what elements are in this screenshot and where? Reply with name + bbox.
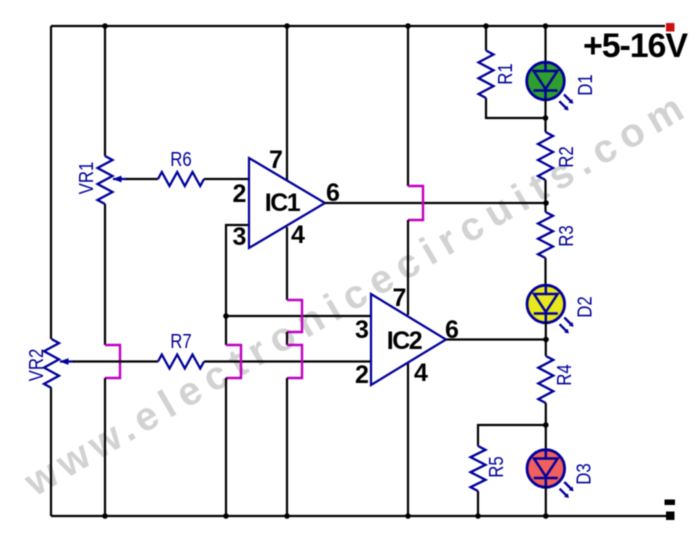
resistor R4	[538, 356, 553, 403]
junction pin3 net / IC2 pin3	[223, 313, 229, 319]
wire: VR1 wiper to R6	[126, 178, 158, 180]
svg-text:4: 4	[291, 221, 305, 249]
resistor R6	[158, 172, 204, 186]
LED D2 body	[527, 285, 565, 323]
wire: R4/D3 junction to R5	[478, 425, 546, 446]
wire: ground net to IC2 pin 3	[226, 315, 371, 317]
svg-text:+5-16V: +5-16V	[583, 27, 688, 65]
LED D2 light arrows	[560, 318, 572, 332]
op-amp IC1	[249, 158, 325, 248]
wire hop: IC1 pin4 column over R7 wire	[287, 345, 302, 378]
junction R1-D1 junction	[543, 115, 549, 121]
resistor R3	[538, 212, 553, 258]
wire: VR2 wiper to R7	[73, 360, 158, 362]
wire: IC1 pin 4 column middle	[286, 332, 288, 345]
svg-text:D2: D2	[573, 296, 596, 317]
LED D3 symbol	[534, 450, 558, 488]
wire: IC2 pin 6 to R3/R4 junction	[446, 338, 546, 340]
wire: left rail upper segment	[50, 26, 52, 339]
LED D3 light arrows	[560, 482, 572, 496]
wire: D2 cathode to R4	[545, 322, 547, 356]
svg-text:VR2: VR2	[25, 349, 48, 382]
junction top rail / IC2 pin7	[405, 23, 411, 29]
junction IC1 out / R2-R3	[543, 200, 549, 206]
svg-text:R3: R3	[555, 225, 578, 246]
resistor R7	[158, 355, 204, 369]
wire: ground bottom rail	[51, 515, 666, 517]
svg-text:D1: D1	[574, 74, 597, 95]
svg-text:3: 3	[233, 223, 247, 251]
junction ground rail / pin3 net	[223, 513, 229, 519]
svg-text:3: 3	[355, 316, 369, 344]
wire: IC2 pin 4 to ground	[407, 363, 409, 516]
wire: R6 to IC1 pin 2	[204, 178, 249, 180]
wire: IC1 pin 3 stub	[226, 225, 249, 345]
wire: R5 to ground rail	[477, 491, 479, 516]
wire: IC1 pin 4 column to ground	[286, 378, 288, 516]
svg-text:VR1: VR1	[75, 162, 98, 195]
svg-text:R1: R1	[494, 63, 517, 84]
wire: R3 to D2 anode	[544, 258, 546, 286]
svg-text:2: 2	[233, 180, 247, 208]
wire: R4 to D3 anode	[545, 403, 547, 450]
wire: D3 cathode to ground rail	[545, 487, 547, 516]
wire: IC1 pin 6 to R2/R3 junction	[325, 202, 546, 204]
wire: IC1 pin 7 to +V rail	[286, 26, 288, 180]
LED D3 body	[527, 450, 565, 488]
junction top rail / VR1	[102, 23, 108, 29]
wire: IC2 pin 7 to +V rail (upper)	[407, 26, 409, 186]
LED D2 symbol	[534, 285, 558, 323]
LED D1 body	[527, 62, 565, 100]
junction top rail / IC1 pin7	[284, 23, 290, 29]
junction ground rail / IC1 pin4	[284, 513, 290, 519]
junction ground rail / VR1	[102, 513, 108, 519]
wire hop: VR1 column over R7 wire	[105, 345, 120, 378]
svg-text:R5: R5	[485, 456, 508, 477]
ground terminal square	[666, 512, 675, 521]
svg-text:R6: R6	[170, 148, 191, 171]
potentiometer VR1	[98, 156, 113, 204]
junction ground rail / R5	[475, 513, 481, 519]
svg-text:R7: R7	[170, 330, 191, 353]
wire: R1 to D1 cathode junction	[486, 98, 546, 118]
junction IC2 out / R3-R4	[543, 337, 549, 343]
junction ground rail / IC2 pin4	[405, 513, 411, 519]
wire: IC2 pin 7 column lower	[407, 220, 409, 315]
resistor R5	[471, 446, 486, 491]
svg-text:2: 2	[355, 361, 369, 389]
wire: left rail lower segment	[50, 388, 52, 516]
VR1 wiper arrow	[113, 178, 127, 180]
LED D1 light arrows	[559, 95, 571, 109]
wire: top rail to D1 anode	[544, 26, 546, 63]
svg-text:7: 7	[269, 146, 283, 174]
wire: pin3 column lower segment to ground	[225, 378, 227, 516]
wire: +V top rail	[51, 25, 665, 27]
svg-text:R4: R4	[553, 364, 576, 385]
resistor R2	[538, 132, 553, 180]
svg-text:D3: D3	[572, 463, 595, 484]
svg-text:IC1: IC1	[265, 189, 301, 217]
potentiometer VR2	[44, 339, 59, 388]
supply terminal red square	[666, 23, 675, 32]
wire: VR1 column to ground (upper part)	[104, 204, 106, 345]
junction top rail / D1	[543, 23, 549, 29]
junction top rail / R1	[483, 23, 489, 29]
LED D1 symbol	[534, 62, 558, 100]
junction R4-D3 / R5	[543, 422, 549, 428]
VR2 wiper arrow	[60, 360, 74, 362]
svg-text:IC2: IC2	[387, 327, 422, 355]
svg-text:R2: R2	[555, 146, 578, 167]
svg-text:4: 4	[414, 359, 428, 387]
wire: IC1 pin 4 column upper	[286, 227, 288, 300]
junction ground rail / D3	[543, 513, 549, 519]
ground terminal bar	[665, 500, 676, 506]
wire: R7 to IC2 pin 2	[204, 360, 371, 362]
wire hop: pin3 column over R7 wire	[226, 345, 241, 378]
wire hop: IC1 pin4 column over IC2 pin3 wire	[287, 300, 302, 332]
wire: VR1 column to ground (lower part)	[104, 378, 106, 516]
resistor R1	[479, 51, 494, 99]
op-amp IC2	[371, 294, 446, 385]
wire: R2 to R3	[544, 180, 546, 212]
wire: top rail to R1	[485, 26, 487, 51]
wire: VR1 column from top rail	[104, 26, 106, 156]
wire hop: IC2 pin7 column over IC1 output wire	[408, 186, 423, 220]
svg-text:7: 7	[393, 284, 407, 312]
wire: D1 cathode to R2	[544, 99, 546, 132]
